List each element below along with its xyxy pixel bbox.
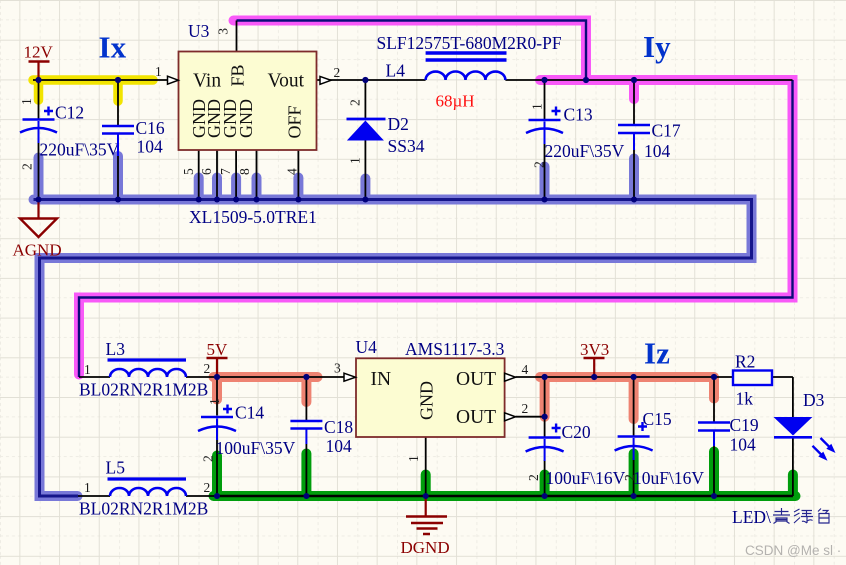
svg-text:6: 6 (199, 168, 214, 175)
svg-text:2: 2 (348, 99, 363, 106)
svg-text:2: 2 (522, 401, 529, 416)
wire 5V stem (216, 359, 218, 378)
svg-text:C19: C19 (730, 415, 759, 435)
net highlight DGND (green) (214, 452, 796, 497)
svg-text:DGND: DGND (401, 538, 450, 557)
resistor R2 (733, 371, 772, 386)
wire D2 cathode (364, 80, 366, 119)
svg-text:3: 3 (216, 28, 231, 35)
wire L3 pin2 to U4 IN (186, 376, 345, 378)
svg-text:1: 1 (530, 103, 545, 110)
wire C17 bottom (633, 150, 635, 200)
svg-text:C15: C15 (643, 409, 672, 429)
svg-text:10uF\16V: 10uF\16V (633, 468, 704, 488)
wire L3 pin1 (79, 376, 110, 378)
wire C19 bottom (713, 446, 715, 496)
ground AGND (20, 219, 57, 238)
svg-text:3V3: 3V3 (580, 340, 609, 359)
svg-text:100uF\16V: 100uF\16V (546, 468, 626, 488)
svg-text:GND: GND (417, 381, 437, 420)
diode D2 (347, 118, 386, 121)
svg-text:104: 104 (644, 141, 671, 161)
svg-text:1: 1 (84, 480, 91, 495)
wire C16 top (117, 80, 119, 126)
wire 3V3 stem (593, 359, 595, 378)
wire C20 bottom (544, 460, 546, 496)
wire FB net core (79, 21, 793, 378)
junction dots top rail (35, 77, 41, 83)
inductor L3 (108, 358, 187, 361)
svg-text:CSDN @Me sl ·: CSDN @Me sl · (745, 543, 841, 558)
svg-text:7: 7 (218, 168, 233, 175)
power port 12V (29, 60, 50, 63)
svg-text:1k: 1k (736, 389, 754, 409)
net highlight AGND (periwinkle blue) (34, 156, 752, 496)
svg-text:5V: 5V (207, 340, 229, 359)
inductor L4 (426, 53, 507, 60)
junction dots 5V 3V3 rails (214, 374, 220, 380)
U4 pin 3 arrow (344, 373, 356, 381)
wire DGND bus core (214, 495, 793, 497)
wire L5 pin2 (186, 495, 217, 497)
svg-text:U3: U3 (188, 21, 210, 41)
wire U4 GND pin1 (425, 437, 427, 496)
svg-text:2: 2 (532, 161, 547, 168)
svg-text:Iy: Iy (643, 29, 671, 64)
svg-text:OUT: OUT (456, 407, 496, 428)
svg-text:1: 1 (19, 98, 34, 105)
wire AGND bus core (34, 200, 752, 497)
U4 pin 2 arrow (505, 413, 516, 421)
svg-text:BL02RN2R1M2B: BL02RN2R1M2B (79, 380, 208, 400)
svg-text:4: 4 (522, 362, 529, 377)
svg-text:C17: C17 (652, 121, 681, 141)
svg-text:8: 8 (237, 168, 252, 175)
svg-text:L3: L3 (106, 339, 126, 359)
svg-text:L5: L5 (106, 458, 126, 478)
wire C18 top (305, 377, 307, 421)
svg-text:68µH: 68µH (436, 92, 475, 111)
wire C13 bottom (544, 144, 546, 200)
wire D3 cathode (792, 439, 794, 497)
svg-text:1: 1 (348, 157, 363, 164)
wire C20 top (544, 417, 546, 438)
wire C15 bottom (633, 458, 635, 496)
U3 pin 2 arrow (320, 76, 331, 84)
wire U3 pin 4 OFF (297, 150, 299, 200)
svg-text:100uF\35V: 100uF\35V (216, 438, 296, 458)
svg-text:XL1509-5.0TRE1: XL1509-5.0TRE1 (189, 207, 317, 227)
svg-text:1: 1 (155, 64, 162, 79)
svg-text:IN: IN (371, 369, 392, 390)
power port 5V (207, 357, 228, 360)
wire DGND stem (425, 496, 427, 517)
op U3 body (179, 52, 317, 151)
svg-text:LED\: LED\ (732, 507, 771, 527)
wire C17 top (633, 80, 635, 125)
power port 3V3 (584, 357, 605, 360)
svg-text:C14: C14 (235, 403, 264, 423)
svg-text:SS34: SS34 (388, 136, 425, 156)
net highlight 5V/3V3 (salmon) (214, 377, 715, 419)
svg-text:GND: GND (236, 99, 256, 138)
svg-text:4: 4 (285, 168, 300, 175)
wire 12V node to Vin (33, 79, 168, 81)
capacitor C17 (618, 125, 650, 133)
svg-text:5: 5 (181, 168, 196, 175)
capacitor C14 (201, 416, 233, 419)
wire C12 top (38, 80, 40, 119)
wire L4 to output node (505, 79, 792, 81)
svg-text:L4: L4 (386, 61, 406, 81)
net highlight FB/Iy (magenta) (79, 21, 793, 375)
wire C14 bottom (216, 440, 218, 496)
wire AGND stem (37, 200, 39, 219)
capacitor C13 (529, 119, 561, 122)
wire L5 pin1 (78, 495, 110, 497)
svg-text:AMS1117-3.3: AMS1117-3.3 (405, 339, 505, 359)
svg-text:U4: U4 (356, 337, 378, 357)
svg-text:3: 3 (334, 361, 341, 376)
svg-text:1: 1 (84, 362, 91, 377)
svg-text:AGND: AGND (13, 241, 62, 260)
svg-text:Vout: Vout (268, 71, 305, 92)
svg-text:2: 2 (334, 65, 341, 80)
wire C18 bottom (305, 444, 307, 496)
svg-text:R2: R2 (735, 352, 755, 372)
wire C15 top (633, 377, 635, 437)
wire Vout to L4 (317, 79, 426, 81)
svg-text:C18: C18 (324, 417, 353, 437)
wire 12V stem (37, 62, 39, 80)
wire U3 pin 3 FB (236, 21, 238, 52)
svg-text:104: 104 (137, 137, 164, 157)
wire C13 top (544, 80, 546, 120)
svg-text:C16: C16 (136, 118, 165, 138)
svg-text:2: 2 (622, 474, 637, 481)
svg-text:220uF\35V: 220uF\35V (545, 141, 625, 161)
wire C14 top (216, 377, 218, 416)
svg-text:104: 104 (326, 436, 353, 456)
svg-text:Vin: Vin (193, 71, 221, 92)
capacitor C15 (618, 435, 650, 438)
svg-text:220uF\35V: 220uF\35V (40, 140, 120, 160)
wire U3 gnd pins 5 6 7 8 (199, 150, 257, 200)
svg-text:D2: D2 (388, 114, 409, 134)
svg-text:C13: C13 (564, 105, 593, 125)
svg-text:104: 104 (730, 435, 757, 455)
svg-text:12V: 12V (24, 43, 54, 62)
svg-text:2: 2 (204, 480, 211, 495)
capacitor C19 (698, 423, 730, 431)
U3 pin 1 arrow (168, 76, 179, 84)
capacitor C18 (290, 421, 322, 429)
led D3 (774, 417, 813, 436)
svg-text:D3: D3 (803, 390, 825, 410)
svg-text:C20: C20 (562, 422, 591, 442)
wire U4 OUT pin2 (516, 416, 545, 418)
wire OUT junction vertical (544, 377, 546, 417)
wire R2 to D3 (772, 377, 793, 417)
wire C16 bottom (117, 156, 119, 200)
U4 pin 4 arrow (505, 373, 516, 381)
svg-text:FB: FB (228, 64, 248, 86)
svg-text:OUT: OUT (456, 369, 496, 390)
svg-text:OFF: OFF (285, 105, 305, 138)
inductor L5 (108, 477, 187, 480)
wire 3V3 rail (545, 376, 733, 378)
wire C19 top (713, 377, 715, 422)
junction dots AGND bus (36, 197, 42, 203)
svg-text:2: 2 (526, 474, 541, 481)
svg-text:Iz: Iz (644, 336, 670, 371)
svg-text:BL02RN2R1M2B: BL02RN2R1M2B (79, 499, 208, 519)
wire U4 OUT pin4 (516, 376, 545, 378)
wire C12 bottom (38, 143, 40, 200)
net highlight Ix (yellow) (33, 80, 153, 101)
svg-text:2: 2 (201, 455, 216, 462)
junction dots DGND bus (214, 493, 220, 499)
svg-text:Ix: Ix (99, 30, 127, 65)
capacitor C16 (102, 126, 134, 134)
capacitor C20 (529, 436, 561, 439)
svg-text:C12: C12 (55, 103, 84, 123)
svg-text:1: 1 (207, 398, 222, 405)
svg-text:SLF12575T-680M2R0-PF: SLF12575T-680M2R0-PF (377, 33, 562, 53)
svg-text:2: 2 (20, 163, 35, 170)
capacitor C12 (23, 118, 55, 121)
ground DGND (406, 517, 447, 535)
svg-text:2: 2 (204, 361, 211, 376)
op U4 body (356, 358, 505, 437)
wire D2 anode (364, 141, 366, 200)
svg-text:1: 1 (406, 455, 421, 462)
